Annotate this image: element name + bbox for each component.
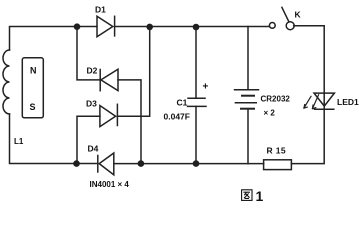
caption 图 1 [242, 190, 252, 201]
junction dot C1 top [193, 24, 200, 31]
inductor L1 [3, 50, 9, 114]
LED LED1 [314, 93, 334, 106]
resistor R15 [264, 160, 292, 170]
diode D1 [97, 16, 113, 37]
LED emission arrows [304, 96, 311, 108]
diode D4 [99, 153, 114, 175]
wire D3 anode to AC2 [77, 116, 100, 163]
wire D2 cathode branch [77, 27, 100, 80]
svg-text:× 2: × 2 [264, 109, 276, 118]
svg-text:C1: C1 [177, 98, 188, 108]
svg-text:D4: D4 [88, 144, 99, 154]
junction dot C1 bottom [193, 160, 200, 167]
node DC- junction dot [138, 160, 145, 167]
wire LED bottom to rail [291, 109, 324, 163]
svg-text:L1: L1 [14, 137, 24, 146]
wire switch to LED top [294, 26, 325, 110]
svg-text:0.047F: 0.047F [164, 112, 190, 122]
svg-text:LED1: LED1 [337, 97, 359, 107]
diode D3 [100, 106, 116, 127]
wire DC+ vertical to D3 cathode [117, 27, 149, 116]
wire bottom rail D4 to R15 [114, 163, 264, 165]
node DC+ junction dot [146, 24, 153, 31]
wire top-left rail (coil top to D1 anode) [10, 27, 98, 51]
battery CR2032 x2 [247, 27, 249, 90]
node AC1 junction dot [74, 23, 81, 30]
svg-text:D1: D1 [95, 5, 106, 15]
switch K [269, 23, 275, 29]
svg-text:+: + [203, 82, 209, 93]
wire D2 anode to DC- rail [118, 80, 141, 164]
svg-text:D3: D3 [86, 99, 97, 109]
svg-text:K: K [295, 10, 302, 20]
diode D2 [101, 69, 118, 90]
svg-text:CR2032: CR2032 [261, 95, 291, 104]
svg-text:S: S [30, 102, 36, 112]
wire left-bottom (coil bottom to bottom rail) [10, 114, 97, 164]
magnet N-S [22, 58, 43, 118]
svg-text:R 15: R 15 [267, 145, 287, 155]
svg-text:D2: D2 [87, 65, 98, 75]
svg-text:1: 1 [256, 188, 264, 204]
svg-text:IN4001 × 4: IN4001 × 4 [90, 180, 130, 189]
node AC2 junction dot [73, 160, 80, 167]
svg-text:N: N [30, 66, 37, 76]
capacitor C1 [195, 27, 197, 98]
wire top rail D1 to switch [115, 26, 270, 28]
